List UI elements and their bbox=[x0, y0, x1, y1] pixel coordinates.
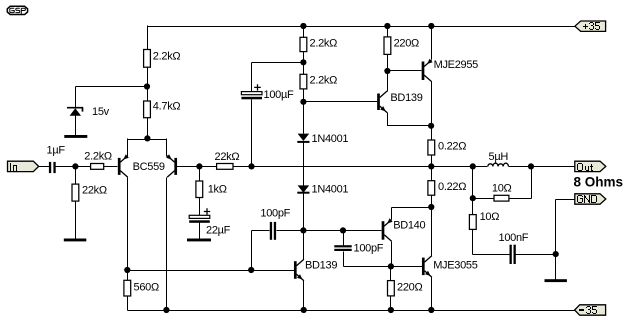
junction bbox=[470, 163, 476, 169]
ground for C2 bbox=[187, 239, 211, 242]
transistor Q4 BD139 bbox=[295, 259, 304, 281]
transistor Q7 MJE3055 bbox=[423, 256, 432, 278]
svg-text:BD139: BD139 bbox=[305, 259, 337, 271]
wire Q1 Q2 emitter join bbox=[128, 139, 167, 157]
svg-text:100nF: 100nF bbox=[499, 232, 529, 244]
wire node B2 to R5 bbox=[200, 166, 217, 168]
svg-text:15v: 15v bbox=[92, 106, 110, 118]
svg-text:BD139: BD139 bbox=[390, 92, 422, 104]
wire Q2 collector down bbox=[166, 178, 168, 311]
wire -35 rail bbox=[128, 310, 575, 312]
junction bbox=[72, 163, 78, 169]
svg-text:10Ω: 10Ω bbox=[480, 211, 500, 223]
svg-text:2.2kΩ: 2.2kΩ bbox=[153, 51, 181, 63]
svg-text:0.22Ω: 0.22Ω bbox=[438, 141, 466, 153]
svg-text:MJE3055: MJE3055 bbox=[433, 260, 478, 272]
wire R5 to feedback node bbox=[234, 166, 252, 168]
junction bbox=[124, 267, 130, 273]
junction bbox=[144, 83, 150, 89]
resistor R14 10&#937; bbox=[494, 195, 509, 201]
ground for D1 bbox=[64, 135, 87, 138]
wire C5 connections bbox=[344, 231, 391, 267]
wire D1 to ground bbox=[75, 116, 77, 137]
junction bbox=[470, 195, 476, 201]
transistor Q3 BD139 bbox=[379, 91, 388, 113]
svg-text:220Ω: 220Ω bbox=[397, 282, 422, 294]
resistor R5 22k&#937; bbox=[217, 164, 233, 170]
wire C3 top to node A bbox=[252, 63, 304, 92]
svg-text:1N4001: 1N4001 bbox=[312, 183, 349, 195]
svg-text:BC559: BC559 bbox=[133, 161, 165, 173]
svg-text:1kΩ: 1kΩ bbox=[208, 183, 227, 195]
capacitor C6 100nF bbox=[510, 245, 516, 264]
transistor Q2 BC559 bbox=[167, 156, 176, 178]
junction bbox=[144, 135, 150, 141]
ground for output network bbox=[545, 279, 567, 282]
wire R3 top stub bbox=[147, 26, 149, 50]
svg-text:10Ω: 10Ω bbox=[492, 183, 512, 195]
wire Q4 collector up to node C bbox=[303, 231, 305, 260]
wire feedback line to output node bbox=[252, 166, 432, 168]
wire R11 stubs bbox=[390, 267, 392, 311]
svg-text:4.7kΩ: 4.7kΩ bbox=[153, 101, 181, 113]
resistor R3 2.2k&#937; bbox=[144, 50, 151, 68]
wire R15 stubs and to C6 bbox=[473, 199, 510, 255]
diode D3 1N4001 bbox=[297, 185, 309, 192]
svg-text:BD140: BD140 bbox=[393, 220, 425, 232]
resistor R4 4.7k&#937; bbox=[144, 101, 151, 118]
resistor R2 2.2k&#937; bbox=[91, 164, 104, 170]
wire C2 to ground bbox=[199, 223, 201, 239]
wire node F to Q6 base bbox=[388, 70, 422, 72]
junction bbox=[384, 23, 390, 29]
wire R7 stubs bbox=[127, 271, 129, 311]
wire zener node to D1 bbox=[76, 87, 148, 108]
capacitor C2 22uF electrolytic bbox=[189, 208, 210, 223]
resistor R10 220&#937; bbox=[384, 37, 391, 55]
svg-text:MJE2955: MJE2955 bbox=[434, 59, 479, 71]
svg-text:22kΩ: 22kΩ bbox=[82, 185, 107, 197]
junction bbox=[248, 267, 254, 273]
zener diode D1 15v bbox=[67, 108, 83, 116]
junction bbox=[428, 23, 434, 29]
wire Q1 collector down bbox=[127, 178, 129, 271]
junction bbox=[428, 307, 434, 313]
svg-text:22µF: 22µF bbox=[206, 225, 231, 237]
junction bbox=[300, 99, 306, 105]
connector tag GND bbox=[575, 194, 606, 204]
resistor R8 2.2k&#937; bbox=[300, 37, 307, 51]
transistor Q1 BC559 bbox=[119, 156, 128, 178]
wire In tag to C1 bbox=[39, 166, 50, 168]
connector tag Out bbox=[575, 161, 606, 171]
wire Q7 emitter to -35 rail bbox=[431, 278, 433, 311]
wire R1 stubs bbox=[75, 167, 77, 239]
svg-text:22kΩ: 22kΩ bbox=[215, 151, 240, 163]
wire GND tag line bbox=[556, 200, 575, 280]
capacitor C3 100uF electrolytic bbox=[241, 84, 262, 99]
junction bbox=[528, 163, 534, 169]
transistor Q5 BD140 bbox=[383, 220, 392, 242]
resistor R6 1k&#937; bbox=[196, 181, 203, 198]
junction bbox=[301, 307, 307, 313]
resistor R15 10&#937; bbox=[469, 215, 476, 230]
wire +35 rail bbox=[148, 26, 576, 28]
inductor L1 5uH bbox=[488, 163, 509, 166]
svg-text:8 Ohms: 8 Ohms bbox=[574, 175, 624, 190]
ground for R1 bbox=[64, 239, 87, 242]
wire R6 stubs bbox=[199, 167, 201, 216]
junction bbox=[553, 251, 559, 257]
svg-text:1N4001: 1N4001 bbox=[312, 133, 349, 145]
ESP logo bbox=[7, 6, 27, 14]
transistor Q6 MJE2955 bbox=[423, 60, 432, 82]
wire Q5 collector to node E bbox=[391, 242, 393, 267]
resistor R7 560&#937; bbox=[124, 280, 131, 296]
svg-text:2.2kΩ: 2.2kΩ bbox=[310, 37, 338, 49]
svg-text:2.2kΩ: 2.2kΩ bbox=[84, 151, 112, 163]
wire C6 to ground node bbox=[516, 254, 556, 256]
capacitor C4 100pF bbox=[270, 222, 276, 240]
resistor R1 22k&#937; bbox=[72, 184, 79, 201]
wire output column bbox=[431, 27, 433, 208]
wire Q3 emitter to node G bbox=[388, 113, 432, 126]
junction bbox=[340, 227, 346, 233]
wire node C line to Q5 base bbox=[277, 230, 382, 232]
wire C3 bottom to feedback node bbox=[251, 100, 253, 167]
junction bbox=[428, 163, 434, 169]
wire output node to L1 and Out tag bbox=[432, 166, 575, 168]
resistor R13 0.22&#937; bbox=[428, 181, 435, 196]
wire C4 left plate to node D bbox=[252, 231, 270, 271]
junction bbox=[428, 123, 434, 129]
wire R3 to zener node bbox=[147, 68, 149, 87]
wire Q7 collector up bbox=[431, 208, 433, 256]
diode D2 1N4001 bbox=[297, 134, 309, 142]
wire R2 to Q1 base bbox=[104, 166, 118, 168]
wire Q2 base to node B2 bbox=[177, 166, 200, 168]
junction bbox=[388, 307, 394, 313]
junction bbox=[196, 163, 202, 169]
svg-text:100µF: 100µF bbox=[264, 89, 294, 101]
svg-text:0.22Ω: 0.22Ω bbox=[438, 181, 466, 193]
resistor R11 220&#937; bbox=[388, 281, 395, 296]
wire Q3 collector up to node F bbox=[387, 72, 389, 92]
wire Q4 emitter to -35 rail bbox=[303, 281, 305, 311]
wire R4 stubs bbox=[147, 87, 149, 140]
junction bbox=[248, 163, 254, 169]
capacitor C5 100pF bbox=[334, 245, 351, 251]
junction bbox=[384, 68, 390, 74]
svg-text:1µF: 1µF bbox=[47, 144, 66, 156]
wire node D to Q4 base bbox=[128, 270, 295, 272]
resistor R9 2.2k&#937; bbox=[300, 74, 307, 89]
wire bias column bbox=[303, 27, 305, 231]
junction bbox=[300, 227, 306, 233]
junction bbox=[163, 307, 169, 313]
wire R14 parallel loop bbox=[473, 167, 532, 199]
connector tag In bbox=[8, 161, 39, 171]
junction bbox=[300, 23, 306, 29]
svg-text:100pF: 100pF bbox=[354, 243, 384, 255]
wire node E to Q7 base bbox=[391, 266, 423, 268]
svg-text:220Ω: 220Ω bbox=[394, 37, 419, 49]
svg-text:5µH: 5µH bbox=[489, 151, 509, 163]
capacitor C1 1uF bbox=[49, 162, 56, 173]
junction bbox=[300, 59, 306, 65]
connector tag +35 bbox=[575, 21, 606, 31]
wire R10 stubs bbox=[387, 27, 389, 72]
resistor R12 0.22&#937; bbox=[428, 140, 435, 155]
junction bbox=[428, 204, 434, 210]
wire Q5 emitter up and right bbox=[392, 208, 432, 220]
svg-text:2.2kΩ: 2.2kΩ bbox=[310, 74, 338, 86]
junction bbox=[388, 263, 394, 269]
svg-text:560Ω: 560Ω bbox=[134, 282, 159, 294]
connector tag -35 bbox=[575, 305, 606, 315]
wire C1 to input node to R2 bbox=[56, 166, 91, 168]
wire node B to Q3 base bbox=[304, 101, 378, 103]
svg-text:100pF: 100pF bbox=[260, 208, 290, 220]
